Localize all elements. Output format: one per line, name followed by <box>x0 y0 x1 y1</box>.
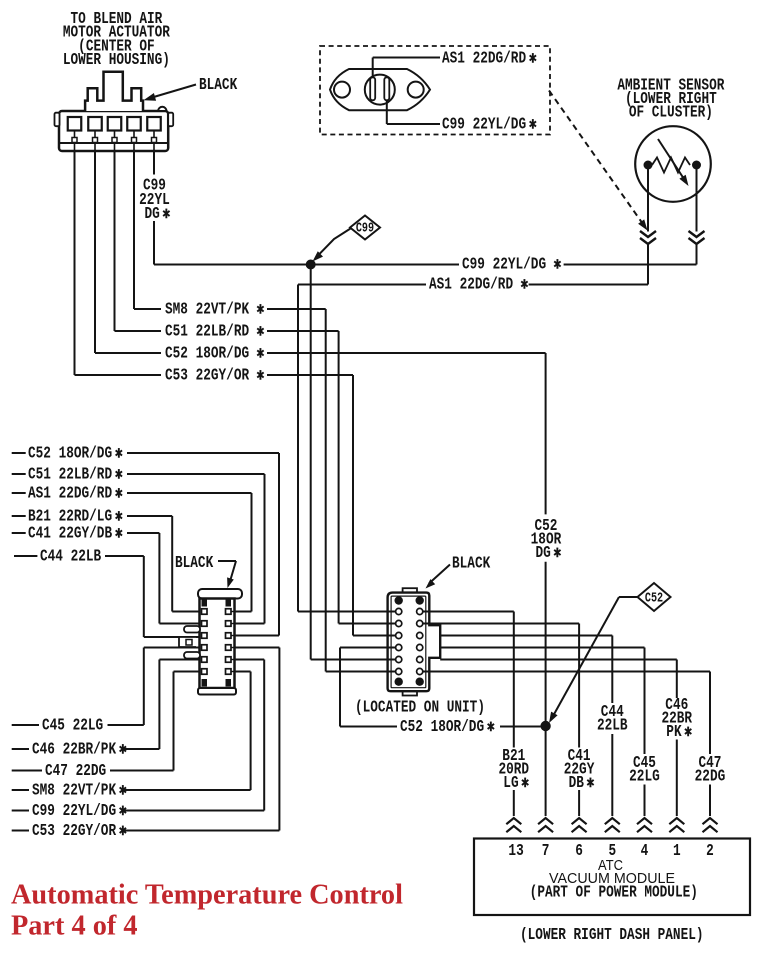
svg-text:C41 22GY/DB: C41 22GY/DB <box>28 523 112 543</box>
svg-text:C99 22YL/DG: C99 22YL/DG <box>32 800 116 820</box>
svg-text:OF CLUSTER): OF CLUSTER) <box>629 102 713 122</box>
svg-text:DB: DB <box>569 772 584 792</box>
svg-text:C51 22LB/RD: C51 22LB/RD <box>28 464 112 484</box>
svg-text:2: 2 <box>706 840 714 860</box>
svg-text:BLACK: BLACK <box>175 552 214 572</box>
svg-text:C51 22LB/RD: C51 22LB/RD <box>165 321 249 341</box>
svg-text:C53 22GY/OR: C53 22GY/OR <box>32 820 116 840</box>
svg-text:PK: PK <box>666 721 682 741</box>
svg-text:6: 6 <box>575 840 583 860</box>
svg-text:(PART OF POWER MODULE): (PART OF POWER MODULE) <box>530 882 698 902</box>
svg-text:C52 18OR/DG: C52 18OR/DG <box>165 343 249 363</box>
svg-text:C45 22LG: C45 22LG <box>42 715 103 735</box>
svg-text:22LG: 22LG <box>629 766 660 786</box>
svg-text:DG: DG <box>145 203 160 223</box>
svg-text:C52: C52 <box>645 590 663 606</box>
svg-text:C99: C99 <box>356 220 374 236</box>
svg-text:1: 1 <box>673 840 681 860</box>
svg-text:AS1 22DG/RD: AS1 22DG/RD <box>442 48 526 68</box>
svg-text:C52 18OR/DG: C52 18OR/DG <box>28 443 112 463</box>
svg-text:C44 22LB: C44 22LB <box>40 546 101 566</box>
svg-text:13: 13 <box>508 840 523 860</box>
svg-text:4: 4 <box>641 840 649 860</box>
svg-text:22LB: 22LB <box>597 715 628 735</box>
svg-text:C46 22BR/PK: C46 22BR/PK <box>32 739 117 759</box>
svg-text:(LOCATED ON UNIT): (LOCATED ON UNIT) <box>355 697 485 717</box>
svg-text:BLACK: BLACK <box>452 553 491 573</box>
svg-text:AS1 22DG/RD: AS1 22DG/RD <box>429 274 513 294</box>
svg-text:C53 22GY/OR: C53 22GY/OR <box>165 365 249 385</box>
svg-text:C99 22YL/DG: C99 22YL/DG <box>462 254 546 274</box>
svg-text:LOWER HOUSING): LOWER HOUSING) <box>63 49 170 69</box>
svg-text:Automatic Temperature Control: Automatic Temperature Control <box>11 880 403 911</box>
svg-text:(LOWER RIGHT DASH PANEL): (LOWER RIGHT DASH PANEL) <box>520 924 704 944</box>
svg-text:LG: LG <box>503 772 518 792</box>
svg-text:BLACK: BLACK <box>199 74 238 94</box>
svg-text:SM8 22VT/PK: SM8 22VT/PK <box>165 299 250 319</box>
svg-text:C47 22DG: C47 22DG <box>45 760 106 780</box>
svg-text:DG: DG <box>536 542 551 562</box>
svg-text:SM8 22VT/PK: SM8 22VT/PK <box>32 780 117 800</box>
svg-text:AS1 22DG/RD: AS1 22DG/RD <box>28 483 112 503</box>
svg-text:C99 22YL/DG: C99 22YL/DG <box>442 114 526 134</box>
svg-text:7: 7 <box>542 840 550 860</box>
svg-text:C52 18OR/DG: C52 18OR/DG <box>400 716 484 736</box>
svg-text:Part 4 of 4: Part 4 of 4 <box>11 911 138 942</box>
svg-text:22DG: 22DG <box>695 766 726 786</box>
